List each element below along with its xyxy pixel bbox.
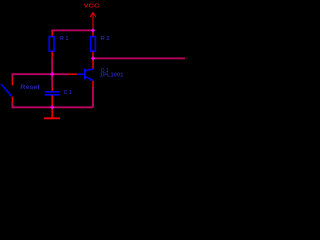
ground symbol stem: [51, 107, 53, 118]
svg-text:R 2: R 2: [101, 36, 110, 42]
resistor R1 top lead: [51, 31, 53, 36]
junction node bottom rail / C1 / ground: [50, 106, 54, 110]
svg-text:Reset: Reset: [20, 84, 40, 91]
transistor Q1 symbol: [77, 69, 93, 81]
resistor R1 bottom lead: [51, 52, 53, 59]
capacitor C1 bottom lead red: [51, 95, 53, 107]
wire top rail VCC net: [52, 30, 93, 31]
resistor R2 top lead: [92, 31, 94, 36]
capacitor C1 bottom plate: [45, 94, 60, 96]
wire emitter net vertical: [92, 87, 94, 108]
resistor R1 body: [49, 37, 54, 52]
wire base rail: [12, 74, 68, 78]
wire R1 to capacitor vertical: [51, 58, 53, 87]
wire bottom rail: [12, 102, 93, 107]
svg-text:VCC: VCC: [84, 4, 100, 10]
transistor Q1 base lead red stub: [68, 73, 77, 75]
ground symbol bar: [44, 117, 60, 119]
wire output rail from collector node to right edge: [93, 57, 185, 59]
transistor Q1 emitter lead red: [92, 81, 94, 88]
junction node VCC rail / R2 / arrow: [91, 29, 95, 33]
capacitor C1 top lead red: [51, 87, 53, 92]
resistor R2 bottom lead: [92, 52, 94, 59]
svg-text:1PL1001: 1PL1001: [100, 72, 124, 78]
switch S1 bottom lead: [11, 97, 13, 103]
transistor Q1 emitter arrowhead: [90, 78, 94, 81]
switch S1 top lead: [11, 78, 13, 85]
transistor Q1 collector lead red: [92, 59, 94, 69]
junction node collector / R2 / output: [91, 57, 95, 61]
resistor R2 body: [91, 37, 96, 52]
junction node base rail / R1 / C1: [50, 72, 54, 76]
svg-text:R 1: R 1: [60, 36, 68, 42]
switch S1 lever: [1, 84, 12, 96]
VCC power symbol arrow: [90, 12, 96, 30]
svg-text:C 1: C 1: [64, 90, 72, 96]
capacitor C1 top plate: [45, 91, 60, 93]
